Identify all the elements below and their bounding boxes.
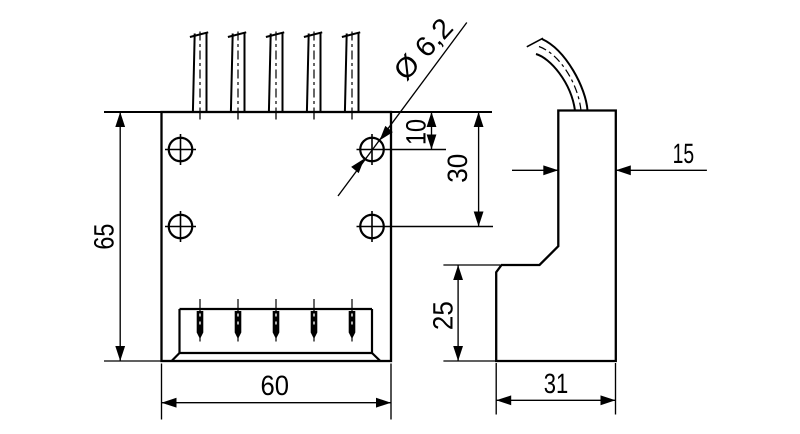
dimension 15 <box>512 138 707 175</box>
dimension 25 <box>428 265 501 361</box>
connector pin p4 <box>311 299 318 342</box>
svg-text:65: 65 <box>89 224 120 250</box>
dimension 10 <box>401 112 437 150</box>
top edge extension line right (10/30 dims) <box>391 111 492 113</box>
leader diameter 6,2 <box>338 12 467 196</box>
pin P5 top <box>342 32 360 120</box>
hole H4 bottom-right <box>357 211 494 242</box>
hole H3 bottom-left <box>165 211 196 242</box>
dimension 60 <box>162 364 392 420</box>
bottom edge extension line left (65 dim) <box>104 360 162 362</box>
pin P3 top <box>266 32 284 120</box>
hole H2 top-right <box>357 134 447 165</box>
svg-text:Ø 6,2: Ø 6,2 <box>388 12 459 86</box>
side view profile <box>496 111 616 362</box>
connector pin p5 <box>349 299 356 342</box>
svg-text:30: 30 <box>442 154 473 183</box>
pin P1 top <box>190 32 208 120</box>
front view body outline <box>162 112 392 361</box>
connector pin p3 <box>273 299 280 342</box>
pin P2 top <box>228 32 246 120</box>
connector pin p1 <box>197 299 204 342</box>
wires out of top <box>527 38 588 110</box>
pin P4 top <box>304 32 322 120</box>
connector block bottom <box>172 309 381 361</box>
svg-text:31: 31 <box>544 368 569 399</box>
connector pin p2 <box>235 299 242 342</box>
dimension 65 <box>89 112 126 361</box>
dimension 30 <box>442 112 484 227</box>
top edge extension line left (65 dim) <box>104 111 162 113</box>
dimension 31 <box>496 363 615 415</box>
hole H1 top-left <box>165 134 196 165</box>
svg-text:60: 60 <box>261 370 290 401</box>
svg-text:25: 25 <box>428 301 459 330</box>
svg-text:15: 15 <box>673 138 695 169</box>
svg-text:10: 10 <box>401 119 432 145</box>
